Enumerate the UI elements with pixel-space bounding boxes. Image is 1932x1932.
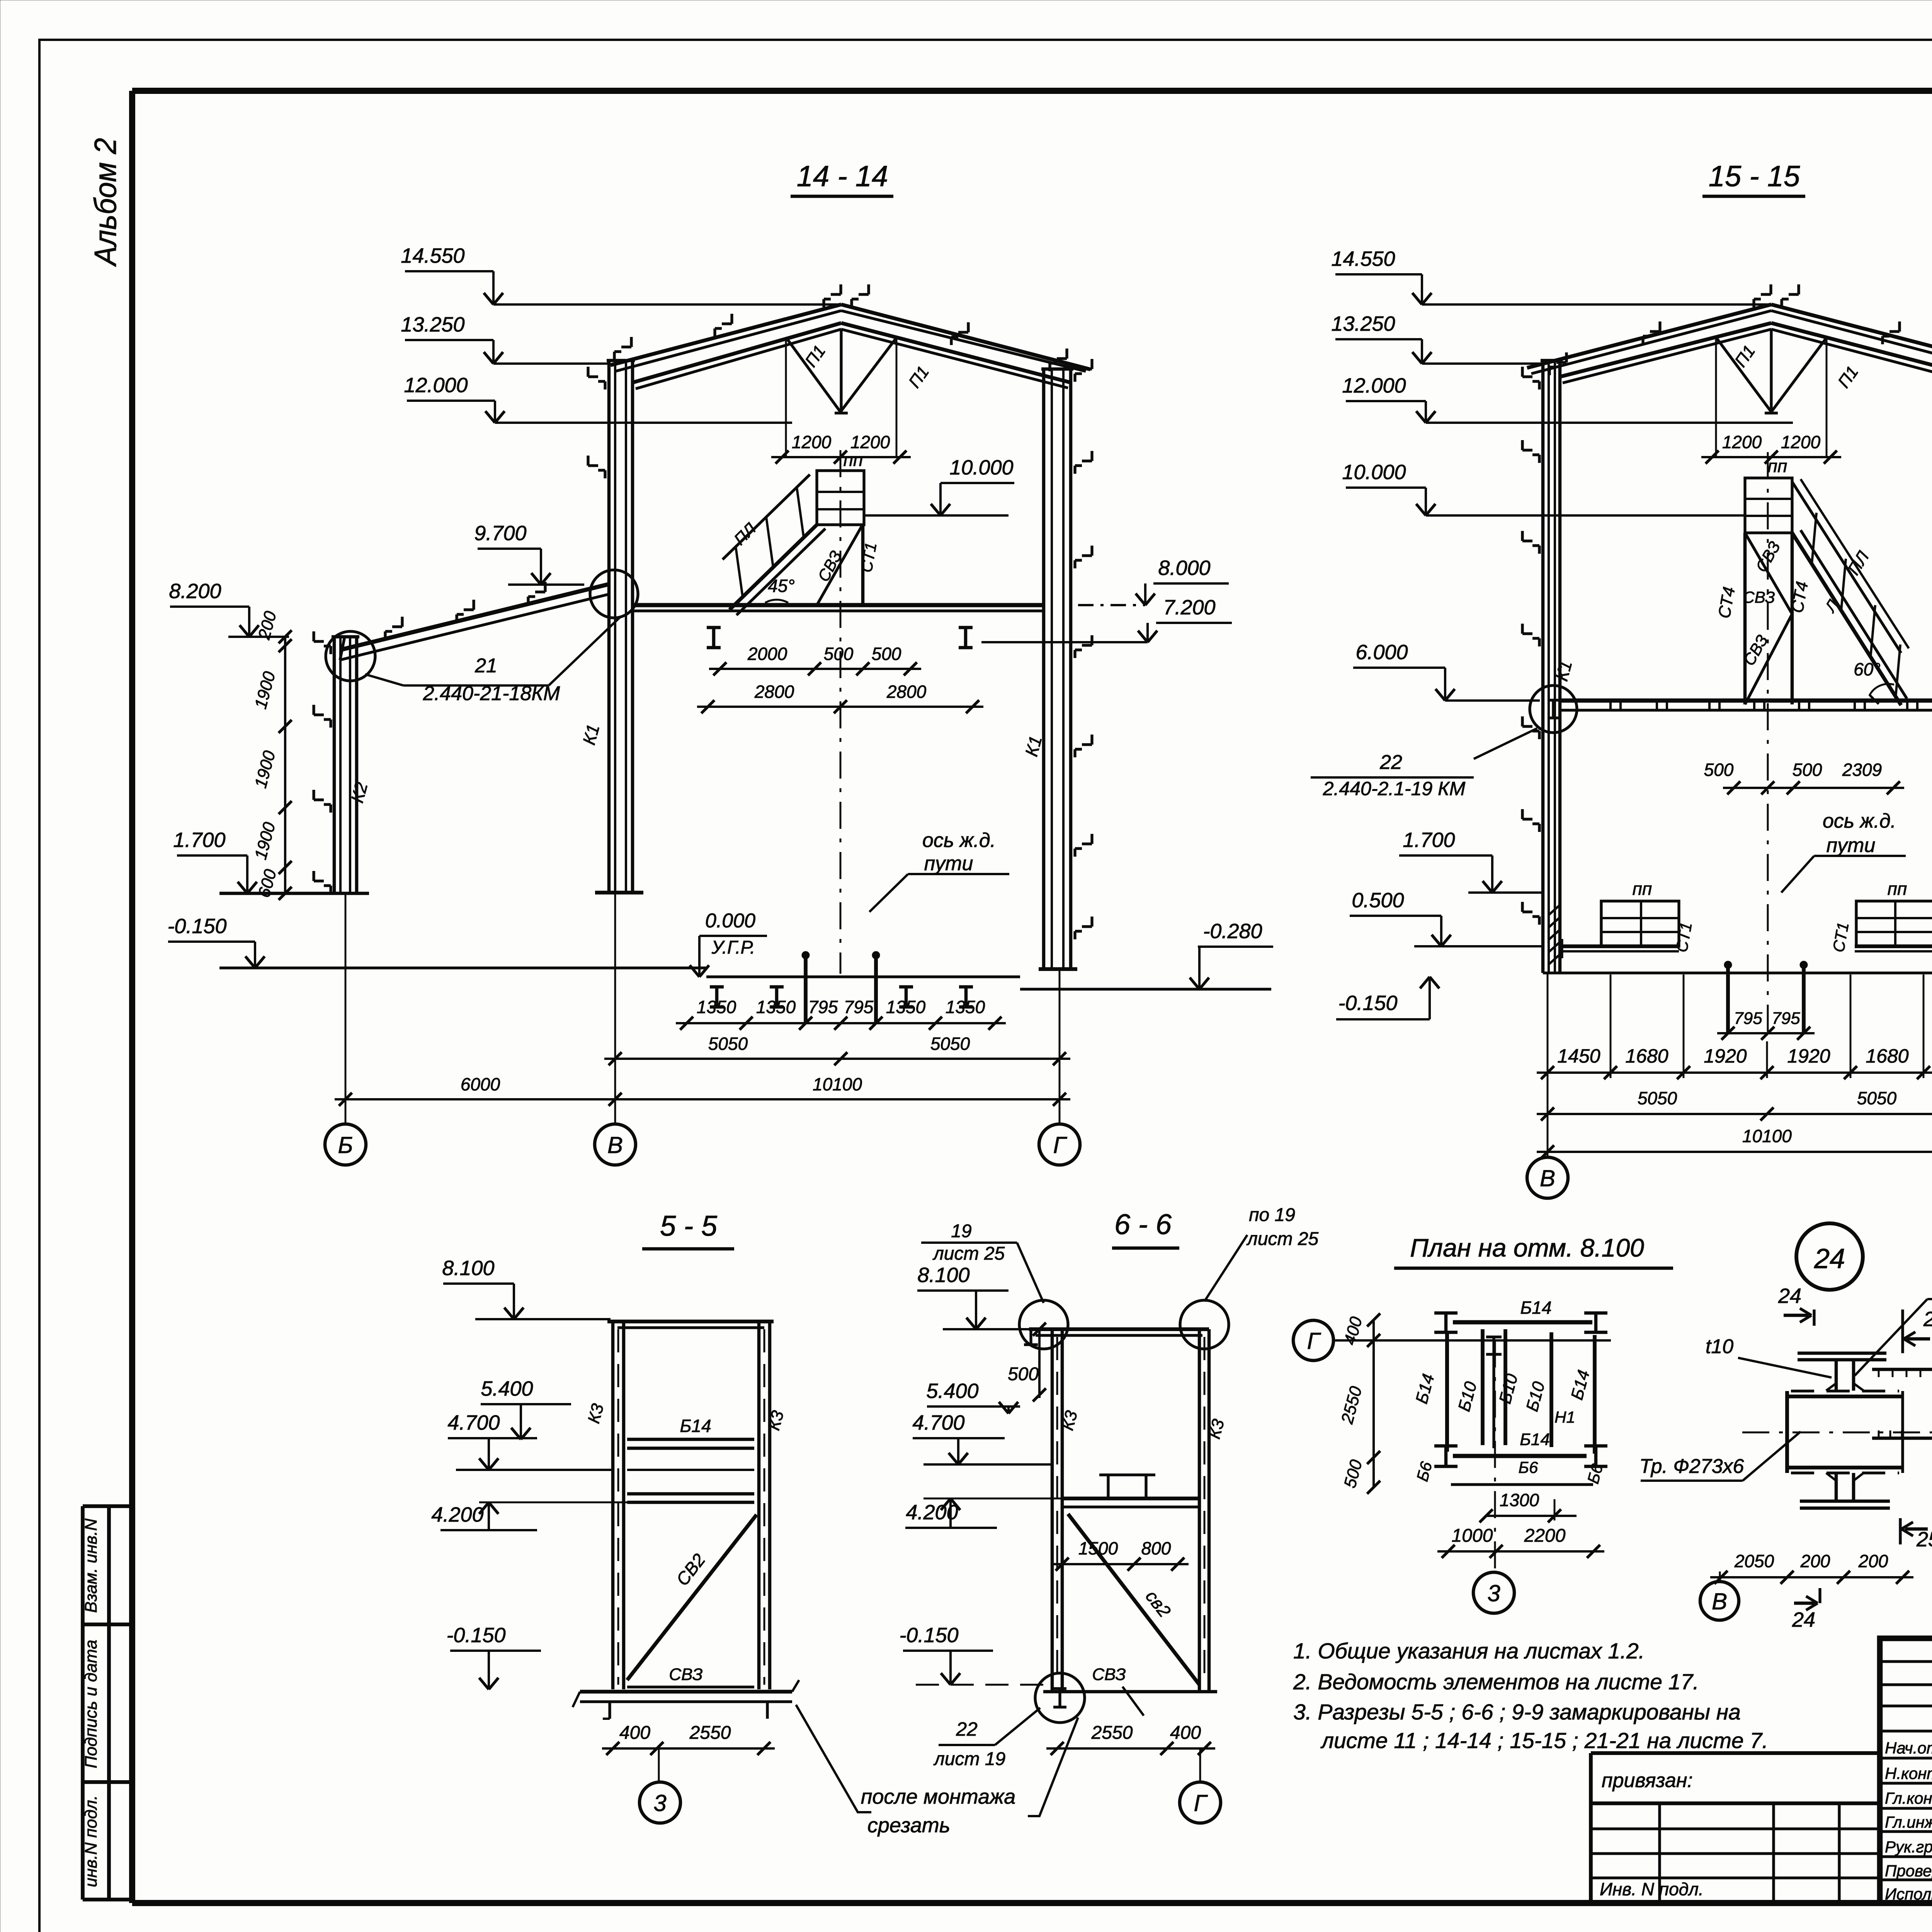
svg-text:срезать: срезать — [867, 1814, 950, 1837]
node leader left 22 — [1474, 728, 1537, 759]
roof V-brace П1 s15 — [1716, 337, 1771, 412]
svg-text:24: 24 — [1814, 1243, 1845, 1274]
rail right s15 — [1802, 968, 1806, 1033]
rail zone ground line — [706, 975, 1020, 978]
svg-text:12.000: 12.000 — [404, 374, 468, 397]
svg-text:8.100: 8.100 — [917, 1264, 969, 1287]
svg-text:1200: 1200 — [792, 432, 832, 452]
svg-text:Проверил: Проверил — [1885, 1862, 1932, 1880]
axis line Г section14 — [1059, 969, 1061, 1124]
left margin table — [83, 1504, 132, 1508]
svg-text:7.200: 7.200 — [1163, 596, 1215, 619]
svg-text:8.100: 8.100 — [442, 1257, 494, 1280]
leader t10 left — [1738, 1358, 1832, 1378]
dimension 500 500 2309 — [1723, 787, 1904, 789]
svg-text:2. Ведомость элементов на л: 2. Ведомость элементов на листе 17. — [1293, 1670, 1699, 1694]
svg-text:1. Общие указания на листах: 1. Общие указания на листах 1.2. — [1293, 1639, 1645, 1663]
svg-text:1000: 1000 — [1452, 1526, 1493, 1546]
bottom platform ПП left — [1601, 901, 1679, 946]
platform stand 6-6 — [1107, 1475, 1109, 1498]
svg-text:13.250: 13.250 — [1331, 312, 1395, 335]
svg-text:лист 25: лист 25 — [1246, 1229, 1319, 1249]
svg-text:Н.контр.: Н.контр. — [1885, 1764, 1932, 1782]
dimension 1000 2200 plan — [1437, 1550, 1604, 1553]
cut mark 24 bottom — [1794, 1602, 1815, 1605]
lower I beam node24 — [1835, 1473, 1838, 1501]
svg-text:500: 500 — [824, 644, 854, 664]
dim chain plan vertical — [1372, 1320, 1375, 1487]
beam end I left — [1444, 1313, 1448, 1332]
annex girt clips — [314, 640, 324, 643]
ground line -0.150 — [219, 966, 706, 969]
svg-text:В: В — [1540, 1165, 1555, 1191]
dimension 5050 5050 — [604, 1058, 1070, 1060]
svg-text:6.000: 6.000 — [1355, 641, 1408, 664]
svg-text:14.550: 14.550 — [1331, 247, 1395, 270]
roof V-brace П1 — [786, 337, 840, 412]
svg-text:1350: 1350 — [946, 997, 985, 1017]
svg-text:листе 11 ; 14-14 ; 15-15 ; 2: листе 11 ; 14-14 ; 15-15 ; 21-21 на лист… — [1320, 1728, 1768, 1753]
svg-text:2200: 2200 — [1524, 1526, 1566, 1546]
beam Б6 plan — [1451, 1483, 1593, 1486]
railing posts s15 — [1812, 513, 1816, 564]
brace СВ2 6-6 — [1068, 1514, 1199, 1685]
svg-text:Г: Г — [1194, 1790, 1208, 1816]
svg-text:22: 22 — [956, 1718, 978, 1740]
svg-text:пути: пути — [1827, 834, 1876, 857]
svg-text:10.000: 10.000 — [949, 456, 1013, 479]
roof purlin clips — [621, 345, 631, 348]
left annex column K2 axis Б — [333, 637, 336, 893]
rail left s15 — [1726, 968, 1730, 1033]
main column K1 axis Г — [1042, 369, 1046, 969]
svg-text:СВЗ: СВЗ — [1092, 1665, 1126, 1684]
plan vertical beam Б14 left — [1445, 1333, 1449, 1452]
axis bubble В node24 — [1700, 1582, 1739, 1620]
axis node24 — [1719, 1571, 1721, 1581]
dimension 1450 1680 1920 chain — [1537, 1071, 1932, 1074]
level line 14.550 — [493, 303, 841, 306]
svg-text:6 - 6: 6 - 6 — [1114, 1208, 1172, 1240]
middle column base — [595, 891, 643, 895]
middle beam 5-5 — [627, 1469, 754, 1471]
svg-text:15 - 15: 15 - 15 — [1709, 160, 1800, 193]
dimension 2800 2800 — [697, 706, 983, 708]
svg-text:-0.150: -0.150 — [446, 1624, 505, 1647]
rail right — [874, 959, 878, 1023]
node I symbol 6-6 left — [1029, 1329, 1032, 1345]
svg-text:0.000: 0.000 — [705, 910, 755, 932]
svg-text:4.700: 4.700 — [912, 1411, 964, 1434]
svg-text:1200: 1200 — [850, 432, 890, 452]
svg-text:лист 19: лист 19 — [933, 1749, 1005, 1769]
column K1 axis В s15 — [1541, 361, 1545, 973]
axis line Б — [345, 893, 347, 1124]
roof left slope s15 — [1527, 304, 1771, 368]
svg-text:Инв. N подл.: Инв. N подл. — [1600, 1879, 1704, 1899]
svg-text:пути: пути — [924, 852, 973, 875]
svg-text:пп: пп — [1888, 879, 1907, 899]
crane rail I-symbol left — [712, 628, 716, 648]
svg-text:У.Г.Р.: У.Г.Р. — [711, 937, 755, 958]
top beam 5-5 — [607, 1320, 774, 1323]
svg-text:8.000: 8.000 — [1158, 556, 1210, 580]
rail left — [804, 959, 808, 1023]
svg-text:1200: 1200 — [1781, 432, 1821, 452]
svg-text:1200: 1200 — [1722, 432, 1762, 452]
svg-text:24: 24 — [1792, 1608, 1815, 1631]
svg-text:2550: 2550 — [1091, 1723, 1133, 1743]
svg-text:Нач.отд.: Нач.отд. — [1885, 1739, 1932, 1757]
svg-text:-0.150: -0.150 — [1338, 992, 1397, 1015]
svg-text:1350: 1350 — [756, 997, 796, 1017]
svg-text:по 19: по 19 — [1249, 1205, 1295, 1225]
ridge tie vertical — [840, 329, 842, 413]
beam СТ1 left — [1562, 944, 1679, 948]
svg-text:500: 500 — [1793, 760, 1822, 780]
svg-text:795: 795 — [844, 997, 874, 1017]
annex roof purlin clips — [392, 625, 402, 628]
svg-text:3: 3 — [1487, 1580, 1500, 1606]
svg-text:5050: 5050 — [930, 1034, 970, 1054]
svg-text:800: 800 — [1141, 1538, 1171, 1558]
svg-text:12.000: 12.000 — [1342, 374, 1406, 397]
dimension 1500 800 6-6 — [1051, 1563, 1189, 1565]
svg-text:5 - 5: 5 - 5 — [660, 1210, 718, 1242]
svg-text:1.700: 1.700 — [173, 828, 225, 852]
binding box привязан — [1591, 1751, 1880, 1755]
axis 3 plan — [1494, 1340, 1496, 1572]
svg-text:Исполнил: Исполнил — [1885, 1885, 1932, 1903]
svg-text:795: 795 — [1734, 1009, 1762, 1028]
leader 19 left — [1017, 1243, 1044, 1303]
brace СВЗ lower — [1745, 614, 1792, 704]
upper I beam node24 — [1798, 1352, 1886, 1355]
roof purlin clips s15 — [1556, 361, 1566, 364]
svg-text:привязан:: привязан: — [1602, 1769, 1693, 1792]
svg-text:Б14: Б14 — [1520, 1430, 1550, 1449]
svg-text:2309: 2309 — [1842, 760, 1882, 780]
svg-text:8.200: 8.200 — [169, 580, 221, 603]
floor joint symbols — [1609, 701, 1612, 710]
svg-text:2800: 2800 — [754, 682, 794, 702]
svg-text:-0.280: -0.280 — [1203, 920, 1262, 943]
svg-text:СВЗ: СВЗ — [669, 1665, 702, 1684]
svg-text:Взам. инв.N: Взам. инв.N — [82, 1519, 100, 1613]
svg-text:14.550: 14.550 — [401, 244, 464, 267]
svg-text:400: 400 — [1170, 1723, 1201, 1743]
svg-text:пп: пп — [1633, 879, 1652, 899]
left elevation tick chain — [284, 637, 286, 893]
axis line В s15 — [1547, 973, 1549, 1157]
node circle В s15 — [1530, 685, 1577, 733]
platform ПП box — [817, 471, 864, 525]
svg-text:Б6: Б6 — [1519, 1458, 1538, 1476]
svg-text:500: 500 — [1008, 1364, 1039, 1384]
dimension 5050 5050 s15 — [1537, 1113, 1932, 1115]
sleeper I-symbols — [715, 987, 719, 1007]
column 6-6 left — [1051, 1329, 1054, 1692]
svg-text:3: 3 — [653, 1790, 666, 1816]
svg-text:21: 21 — [474, 655, 497, 677]
svg-text:-0.150: -0.150 — [899, 1624, 958, 1647]
svg-text:5.400: 5.400 — [481, 1377, 533, 1400]
svg-text:4.700: 4.700 — [447, 1411, 500, 1434]
svg-text:19: 19 — [951, 1221, 971, 1242]
axis 5-5 — [658, 1748, 660, 1782]
leader t10 top — [1855, 1299, 1927, 1376]
svg-text:22: 22 — [1379, 751, 1402, 774]
dimension rail spacing — [676, 1022, 1006, 1024]
svg-text:t10: t10 — [1706, 1335, 1733, 1358]
svg-text:ось ж.д.: ось ж.д. — [1823, 810, 1896, 832]
axis bubble 3 plan — [1473, 1572, 1514, 1613]
axis bubble 3 5-5 — [639, 1782, 680, 1823]
leader Тр node24 — [1743, 1432, 1801, 1481]
floor 6.000 beam s15 — [1560, 699, 1932, 703]
svg-text:10.000: 10.000 — [1342, 461, 1406, 484]
dimension 2550 400 6-6 — [1046, 1747, 1215, 1750]
node circle 6-6 bottom — [1035, 1673, 1085, 1723]
svg-text:2000: 2000 — [747, 644, 787, 664]
svg-text:Б14: Б14 — [1520, 1298, 1551, 1318]
annex base line — [219, 892, 369, 895]
svg-text:25: 25 — [1923, 1308, 1932, 1331]
svg-text:4.200: 4.200 — [431, 1503, 483, 1526]
middle column girt clips — [588, 375, 598, 378]
svg-text:5050: 5050 — [1857, 1088, 1897, 1108]
leader после монтажа right — [1028, 1718, 1078, 1816]
crane rail I-symbol right — [964, 628, 968, 648]
svg-text:СВЗ: СВЗ — [1743, 588, 1775, 606]
gusset plate node24 — [1872, 1368, 1932, 1371]
svg-text:1450: 1450 — [1557, 1045, 1600, 1067]
stair stringer — [730, 525, 817, 610]
svg-text:после монтажа: после монтажа — [861, 1785, 1016, 1808]
title block outer frame — [1880, 1638, 1932, 1903]
gusset hatch bottom — [1878, 1430, 1880, 1438]
column 5-5 right — [757, 1321, 761, 1689]
svg-text:инв.N подл.: инв.N подл. — [82, 1795, 100, 1887]
svg-text:Гл.инж.пр.: Гл.инж.пр. — [1885, 1813, 1932, 1831]
node I symbol bottom — [1058, 1689, 1061, 1707]
svg-text:5050: 5050 — [1638, 1088, 1677, 1108]
post СТ4 right — [1791, 533, 1794, 704]
anchor marks 5-5 — [608, 1702, 611, 1719]
svg-text:2050: 2050 — [1734, 1551, 1774, 1571]
svg-text:200: 200 — [1858, 1551, 1888, 1571]
svg-text:Б14: Б14 — [680, 1416, 711, 1436]
node circle 6-6 right — [1180, 1300, 1229, 1349]
leader line 10.000 — [864, 514, 1009, 517]
platform beam 6-6 — [1062, 1497, 1199, 1500]
svg-text:795: 795 — [808, 997, 838, 1017]
stair railing posts — [797, 487, 804, 537]
stair railing s15 — [1792, 482, 1901, 653]
brace СВЗ 5-5 — [627, 1685, 754, 1688]
svg-text:1300: 1300 — [1500, 1490, 1539, 1510]
svg-text:1.700: 1.700 — [1403, 828, 1455, 852]
stair stringer s15 — [1792, 533, 1901, 705]
dimension 795 795 s15 — [1717, 1032, 1815, 1034]
gusset hatch top — [1878, 1369, 1880, 1377]
inner drawing frame — [132, 88, 1932, 94]
post СТ4 left — [1743, 533, 1747, 704]
leader 22 лист19 — [995, 1708, 1040, 1745]
axis bubble В s15 — [1527, 1157, 1568, 1198]
svg-text:500: 500 — [1704, 760, 1734, 780]
stair railing ПЛ — [723, 474, 810, 560]
base plate 5-5 — [580, 1690, 792, 1694]
svg-text:лист 25: лист 25 — [932, 1243, 1005, 1264]
beam end I right — [1594, 1313, 1598, 1332]
brace СВ2 5-5 — [627, 1515, 757, 1680]
svg-text:13.250: 13.250 — [401, 313, 464, 336]
axis bubble В — [595, 1124, 636, 1165]
pipe center axis — [1742, 1432, 1932, 1434]
ground line s15 — [1543, 971, 1932, 974]
svg-text:1920: 1920 — [1787, 1045, 1830, 1067]
beam Б14 lower plan — [1453, 1454, 1587, 1458]
lower end I left — [1444, 1446, 1448, 1466]
dimension 1200 1200 s15 — [1701, 456, 1841, 458]
leader после монтажа left — [796, 1705, 871, 1812]
node I symbol В — [1552, 700, 1554, 718]
svg-text:Рук.гр.: Рук.гр. — [1885, 1838, 1932, 1856]
svg-text:Г: Г — [1307, 1328, 1321, 1354]
axis line В — [614, 893, 616, 1124]
floor level 8.000 beam — [634, 603, 1044, 607]
ridge tie vertical s15 — [1770, 329, 1772, 413]
lower end I right — [1594, 1446, 1598, 1466]
svg-text:В: В — [607, 1132, 623, 1158]
beam Б14 5-5 — [627, 1438, 754, 1441]
svg-text:Г: Г — [1053, 1132, 1068, 1158]
svg-text:2.440-21-18КМ: 2.440-21-18КМ — [423, 682, 560, 705]
roof beam left slope — [611, 304, 841, 365]
brace СВЗ upper — [1745, 533, 1792, 614]
svg-text:Н1: Н1 — [1554, 1408, 1575, 1426]
level line 10.000 to platform — [1426, 514, 1745, 517]
dimension 400 2550 5-5 — [602, 1747, 775, 1750]
axis bubble Б — [325, 1124, 366, 1165]
middle column K1 axis B — [607, 361, 611, 893]
crane rail leader 7.200 — [981, 641, 1148, 643]
svg-text:60°: 60° — [1854, 659, 1881, 679]
dimension 2000 500 500 — [709, 668, 921, 670]
svg-text:5.400: 5.400 — [926, 1379, 978, 1403]
top beam 6-6 — [1029, 1327, 1209, 1331]
beam lower 5-5 — [627, 1492, 754, 1496]
beam 21 mark leader — [365, 674, 403, 685]
svg-text:10100: 10100 — [813, 1074, 862, 1094]
svg-text:3. Разрезы 5-5 ; 6-6 ; 9-9 з: 3. Разрезы 5-5 ; 6-6 ; 9-9 замаркированы… — [1293, 1700, 1741, 1725]
axis line Г plan — [1333, 1339, 1611, 1342]
dimension 1200 1200 ridge — [771, 456, 911, 458]
svg-text:1680: 1680 — [1866, 1045, 1908, 1067]
bottom platform ПП right — [1856, 901, 1932, 946]
axis bubble Г — [1039, 1124, 1080, 1165]
track axis leader — [869, 874, 908, 912]
column hatch s15 — [1549, 905, 1560, 915]
plan post Н1 symbol — [1492, 1337, 1495, 1448]
svg-text:795: 795 — [1772, 1009, 1800, 1028]
svg-text:ось ж.д.: ось ж.д. — [922, 829, 996, 852]
svg-text:пп: пп — [1768, 456, 1787, 476]
post СТ1 — [861, 525, 865, 605]
svg-text:2800: 2800 — [886, 682, 927, 702]
beam СТ1 right — [1855, 944, 1932, 948]
svg-text:В: В — [1712, 1588, 1727, 1614]
roof right slope s15 — [1771, 304, 1932, 368]
svg-text:2.440-2.1-19 КМ: 2.440-2.1-19 КМ — [1323, 778, 1466, 799]
svg-text:5050: 5050 — [708, 1034, 748, 1054]
binding box grid — [1658, 1803, 1661, 1903]
dimension 10100 s15 — [1537, 1151, 1932, 1153]
svg-text:1680: 1680 — [1625, 1045, 1668, 1067]
svg-text:Б: Б — [338, 1132, 353, 1158]
plan beam Б10 b — [1503, 1329, 1507, 1445]
svg-text:Тр. Ф273х6: Тр. Ф273х6 — [1639, 1455, 1744, 1478]
svg-text:2550: 2550 — [689, 1723, 731, 1743]
svg-text:1350: 1350 — [886, 997, 926, 1017]
dimension 6000 10100 — [335, 1098, 1070, 1100]
pipe body node24 — [1791, 1389, 1899, 1392]
plan beam Б10 c — [1549, 1332, 1553, 1447]
svg-text:Альбом 2: Альбом 2 — [88, 138, 122, 267]
column 6-6 right — [1198, 1329, 1201, 1692]
axis bubble Г plan — [1293, 1320, 1333, 1361]
svg-text:9.700: 9.700 — [474, 522, 526, 545]
node circle at K1 haunch — [590, 570, 638, 618]
svg-text:План на отм. 8.100: План на отм. 8.100 — [1410, 1233, 1644, 1262]
axis bubble Г 6-6 — [1180, 1782, 1221, 1823]
svg-text:200: 200 — [1800, 1551, 1830, 1571]
svg-text:-0.150: -0.150 — [167, 915, 226, 938]
svg-text:14 - 14: 14 - 14 — [797, 160, 888, 193]
svg-text:24: 24 — [1778, 1284, 1801, 1308]
title block name rows — [1880, 1757, 1932, 1759]
center axis s15 — [1767, 452, 1769, 1041]
svg-text:пп: пп — [844, 450, 863, 470]
main column girt clips — [1082, 367, 1092, 370]
leader СВЗ 6-6 — [1122, 1687, 1144, 1716]
leader по19 right — [1204, 1235, 1247, 1301]
title block horizontal rows top — [1880, 1660, 1932, 1663]
track axis leader s15 — [1781, 856, 1814, 893]
base plate right column — [1039, 967, 1077, 971]
platform ПП box s15 — [1745, 478, 1792, 533]
svg-text:Подпись и дата: Подпись и дата — [82, 1640, 100, 1769]
plan beam Б14 right — [1593, 1335, 1597, 1454]
column 5-5 left — [611, 1321, 615, 1689]
svg-text:45°: 45° — [768, 576, 795, 596]
annex roof beam 21 — [340, 584, 609, 650]
svg-text:Гл.констр: Гл.констр — [1885, 1789, 1932, 1807]
node label circle 24 — [1796, 1223, 1863, 1290]
axis 6-6 — [1199, 1748, 1201, 1782]
node circle at K2 top — [326, 631, 375, 681]
dimension 2050 200 200 node24 — [1710, 1576, 1913, 1578]
svg-text:400: 400 — [619, 1723, 650, 1743]
svg-text:6000: 6000 — [461, 1074, 500, 1094]
svg-text:1350: 1350 — [697, 997, 736, 1017]
node circle 6-6 left — [1019, 1300, 1068, 1349]
svg-text:0.500: 0.500 — [1352, 889, 1404, 912]
girt clips s15 left — [1522, 375, 1532, 378]
svg-text:10100: 10100 — [1742, 1126, 1792, 1146]
dimension extension verticals s15 — [1610, 975, 1612, 1078]
